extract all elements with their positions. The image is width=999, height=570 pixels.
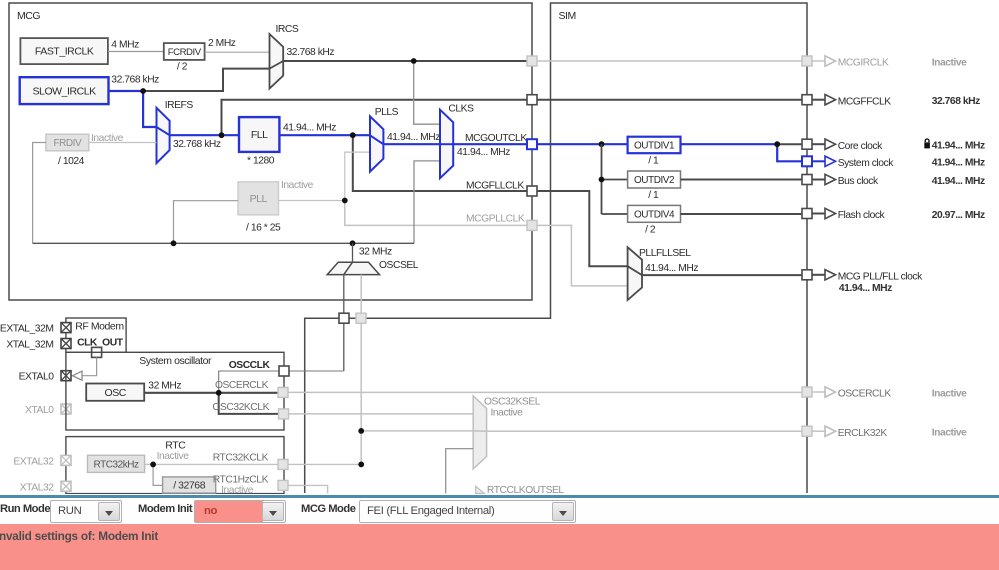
connector MCGPLLCLK at MCG border xyxy=(527,220,537,230)
connector MCGFFCLK at MCG border xyxy=(527,95,537,105)
junction rail to PLL xyxy=(171,240,177,246)
svg-text:RTC32KCLK: RTC32KCLK xyxy=(213,453,269,464)
label MCG Mode xyxy=(301,503,355,515)
wire CLK_OUT to EXTAL0 xyxy=(82,357,97,375)
svg-text:/ 2: / 2 xyxy=(645,224,656,235)
wire OSCERCLK to SIM border (inactive) xyxy=(288,391,802,393)
divider OUTDIV1 (blue) xyxy=(628,137,681,154)
dropdown Modem Init = no (invalid, red) xyxy=(194,500,286,523)
svg-text:OSC32KCLK: OSC32KCLK xyxy=(212,402,269,413)
wire OSCSEL input 2 from RTC 32k xyxy=(360,275,362,465)
svg-text:Inactive: Inactive xyxy=(932,57,967,68)
connector CLK_OUT xyxy=(92,347,102,357)
mux CLKS (blue, active) xyxy=(440,110,453,179)
mux PLLS (blue, active) xyxy=(370,116,383,171)
svg-text:/ 16 * 25: / 16 * 25 xyxy=(246,223,281,234)
mux IREFS (blue, active) xyxy=(157,108,170,163)
wire PLL output (inactive) xyxy=(279,200,345,202)
mux RTCCLKOUTSEL (clipped) xyxy=(476,486,485,493)
block SLOW_IRCLK xyxy=(20,77,109,104)
svg-text:OSCCLK: OSCCLK xyxy=(229,360,271,371)
mux IRCS xyxy=(270,34,284,89)
svg-text:FRDIV: FRDIV xyxy=(53,138,82,149)
junction IRCS rail xyxy=(411,58,417,64)
wire PLLS output to CLKS (blue) xyxy=(383,143,440,145)
wire MCGOUTCLK inside SIM (blue) xyxy=(537,143,628,145)
svg-text:Inactive: Inactive xyxy=(491,408,524,419)
svg-text:SIM: SIM xyxy=(559,10,576,22)
wire branch to MCGFFCLK xyxy=(222,100,528,136)
mux PLLFLLSEL xyxy=(628,247,642,300)
block FLL (blue, active) xyxy=(239,117,279,152)
junction PLL output xyxy=(342,198,348,204)
wire OSCSEL input 1 from OSCCLK xyxy=(343,275,345,371)
svg-text:OSC: OSC xyxy=(104,387,126,399)
svg-text:20.97... MHz: 20.97... MHz xyxy=(932,210,985,221)
connector MCGFLLCLK at MCG border xyxy=(527,186,537,196)
svg-text:ERCLK32K: ERCLK32K xyxy=(838,428,888,439)
pin XTAL_32M xyxy=(61,339,71,349)
crossing square OSCSEL input2 on boundary xyxy=(356,313,366,323)
wire OSC output xyxy=(144,392,278,394)
wire FAST_IRCLK to FCRDIV xyxy=(108,51,164,53)
wire RTC32kHz output xyxy=(145,463,278,465)
MCG module box xyxy=(9,3,532,300)
wire OSC32KCLK to OSC32KSEL (inactive) xyxy=(289,413,474,415)
wire down to OUTDIV2 and OUTDIV4 xyxy=(601,144,603,214)
output OSCERCLK: connector, arrow, labels xyxy=(802,387,967,400)
RTC box xyxy=(66,437,284,494)
label Run Mode xyxy=(0,503,50,515)
svg-text:OSCSEL: OSCSEL xyxy=(379,260,419,271)
svg-text:41.94... MHz: 41.94... MHz xyxy=(283,122,336,133)
svg-text:41.94... MHz: 41.94... MHz xyxy=(932,158,985,169)
svg-text:IREFS: IREFS xyxy=(165,100,194,111)
wire MCGFLLCLK inside SIM to PLLFLLSEL xyxy=(537,191,628,266)
System oscillator box xyxy=(66,352,284,430)
toolbar xyxy=(0,498,999,524)
svg-text:2 MHz: 2 MHz xyxy=(208,38,236,49)
wire PLL output up to PLLS input 2 xyxy=(345,152,370,200)
junction RTC32kHz output xyxy=(150,462,156,468)
wire OSC rail up to CLKS input 3 xyxy=(414,161,440,243)
svg-text:OSCERCLK: OSCERCLK xyxy=(838,389,892,400)
connector MCGOUTCLK at MCG border (blue) xyxy=(527,139,537,149)
block FAST_IRCLK xyxy=(20,38,108,64)
wire PLLFLLSEL output to border xyxy=(642,274,802,276)
mux OSCSEL xyxy=(327,262,379,274)
arrowhead into EXTAL0 xyxy=(73,371,83,380)
wire OUTDIV4 output to flash clock xyxy=(681,213,803,215)
toolbar separator line xyxy=(0,495,999,498)
svg-text:Bus clock: Bus clock xyxy=(838,176,879,187)
wire IRCS output rail to MCG border xyxy=(283,60,527,62)
svg-text:MCG: MCG xyxy=(17,10,40,22)
wire ERCLK32K output to SIM border xyxy=(487,430,802,432)
pin XTAL32 xyxy=(61,481,71,491)
pin EXTAL32 xyxy=(61,455,71,465)
svg-text:* 1280: * 1280 xyxy=(247,155,275,166)
svg-text:XTAL32: XTAL32 xyxy=(20,483,54,494)
svg-text:MCGFLLCLK: MCGFLLCLK xyxy=(466,181,524,192)
svg-text:EXTAL32: EXTAL32 xyxy=(13,457,54,468)
divider OUTDIV4 xyxy=(628,205,681,222)
wire OSC32KSEL input 3 from below xyxy=(446,449,474,494)
svg-text:EXTAL0: EXTAL0 xyxy=(19,371,55,382)
svg-text:32.768 kHz: 32.768 kHz xyxy=(111,75,159,86)
svg-text:RTCCLKOUTSEL: RTCCLKOUTSEL xyxy=(487,485,565,494)
wire OSCSEL output up to rail xyxy=(352,243,354,262)
svg-text:41.94... MHz: 41.94... MHz xyxy=(932,141,985,152)
junction rail to OSCSEL xyxy=(350,240,356,246)
svg-text:41.94... MHz: 41.94... MHz xyxy=(457,147,510,158)
svg-text:MCGIRCLK: MCGIRCLK xyxy=(838,58,889,69)
pin XTAL0 xyxy=(61,404,71,414)
connector RTC1HzCLK xyxy=(278,480,288,490)
dropdown MCG Mode = FEI xyxy=(359,500,576,523)
output Bus clock: connector, arrow, labels xyxy=(802,174,985,187)
RF Modem box xyxy=(66,318,126,352)
svg-text:/ 2: / 2 xyxy=(177,62,188,73)
output System clock: connector, arrow, labels xyxy=(802,156,985,169)
svg-text:32 MHz: 32 MHz xyxy=(359,246,392,257)
wire FCRDIV to IRCS mux xyxy=(205,51,270,53)
svg-text:Inactive: Inactive xyxy=(281,180,314,191)
output MCG PLL/FLL clock: connector, arrow, labels xyxy=(802,270,923,283)
svg-text:MCGOUTCLK: MCGOUTCLK xyxy=(465,133,527,144)
svg-text:32.768 kHz: 32.768 kHz xyxy=(287,47,335,58)
wire branch FLL output to MCGFLLCLK xyxy=(353,135,527,191)
svg-text:PLLS: PLLS xyxy=(375,107,399,118)
svg-text:41.94... MHz: 41.94... MHz xyxy=(932,176,985,187)
svg-text:OSCERCLK: OSCERCLK xyxy=(215,380,269,391)
svg-text:Inactive: Inactive xyxy=(932,428,967,439)
svg-text:41.94... MHz: 41.94... MHz xyxy=(387,132,440,143)
svg-text:RTC: RTC xyxy=(165,440,186,452)
junction OSC output xyxy=(216,390,222,396)
wire OSC branch down to OSC32KCLK xyxy=(219,393,279,414)
svg-text:32.768 kHz: 32.768 kHz xyxy=(173,139,221,150)
wire IREFS output to FLL (blue) xyxy=(170,134,239,136)
svg-text:Inactive: Inactive xyxy=(221,485,254,494)
junction OUTDIV feed xyxy=(599,141,605,147)
svg-text:/ 1: / 1 xyxy=(648,190,659,201)
wire MCGOUTCLK (blue) to SIM xyxy=(453,143,527,145)
wire FRDIV input from 32MHz rail xyxy=(33,143,46,244)
svg-text:32 MHz: 32 MHz xyxy=(148,381,181,392)
mux OSC32KSEL (inactive) xyxy=(473,396,486,469)
wire FLL output to PLLS (blue) xyxy=(279,134,370,136)
divider / 32768 xyxy=(163,477,216,493)
svg-text:System clock: System clock xyxy=(838,158,895,169)
pin EXTAL_32M xyxy=(61,323,71,333)
error banner xyxy=(0,524,999,570)
junction OUTDIV2 feed xyxy=(599,177,605,183)
output Flash clock: connector, arrow, labels xyxy=(802,208,985,221)
svg-text:RF Modem: RF Modem xyxy=(75,320,124,332)
svg-text:OUTDIV4: OUTDIV4 xyxy=(634,209,675,220)
wire OUTDIV2 output to bus clock xyxy=(681,179,803,181)
wire slow clock down to IREFS mux (blue) xyxy=(143,91,156,127)
wire SLOW_IRCLK output (blue) xyxy=(109,90,144,92)
junction slow clock xyxy=(140,88,146,94)
svg-text:EXTAL_32M: EXTAL_32M xyxy=(0,323,54,334)
wire PLL input from 32MHz rail xyxy=(174,201,239,244)
output Core clock: connector, arrow, labels xyxy=(802,139,985,152)
connector RTC32KCLK xyxy=(278,459,288,469)
output MCGIRCLK: connector, arrow, labels xyxy=(802,56,967,69)
svg-text:FLL: FLL xyxy=(251,129,268,141)
wire MCGIRCLK inside SIM (inactive) xyxy=(537,60,802,62)
connector OSCCLK on box border xyxy=(279,366,289,376)
block OSC xyxy=(86,384,144,401)
svg-text:41.94... MHz: 41.94... MHz xyxy=(645,263,698,274)
wire slow clock to IRCS mux input 2 xyxy=(143,69,269,91)
svg-text:RTC1HzCLK: RTC1HzCLK xyxy=(213,474,269,485)
block RTC32kHz (inactive) xyxy=(88,455,145,472)
svg-text:SLOW_IRCLK: SLOW_IRCLK xyxy=(33,85,97,97)
wire PLL output down to MCGPLLCLK xyxy=(345,201,527,226)
pin EXTAL0 xyxy=(61,371,71,381)
wire core clock to border xyxy=(777,143,802,145)
svg-text:41.94... MHz: 41.94... MHz xyxy=(839,283,892,294)
svg-text:Inactive: Inactive xyxy=(932,388,967,399)
svg-text:Core clock: Core clock xyxy=(838,141,883,152)
wire branch down to divider 32768 xyxy=(153,464,163,485)
svg-text:CLKS: CLKS xyxy=(448,104,474,115)
wire OUTDIV1 output (blue) xyxy=(681,143,778,145)
wire MCGFFCLK inside SIM xyxy=(537,99,802,101)
output MCGFFCLK: connector, arrow, labels xyxy=(802,95,980,108)
svg-text:OUTDIV1: OUTDIV1 xyxy=(634,141,675,152)
wire OSC branch up to OSCCLK xyxy=(219,371,344,393)
svg-text:XTAL_32M: XTAL_32M xyxy=(6,339,53,350)
svg-text:32.768 kHz: 32.768 kHz xyxy=(932,96,980,107)
connector MCGIRCLK at MCG border xyxy=(527,56,537,66)
wire system clock (blue) xyxy=(777,144,802,161)
divider FRDIV (inactive) xyxy=(46,134,89,151)
svg-text:Inactive: Inactive xyxy=(157,451,190,462)
svg-text:RTC32kHz: RTC32kHz xyxy=(93,459,139,470)
divider OUTDIV2 xyxy=(628,171,681,188)
svg-text:IRCS: IRCS xyxy=(276,24,299,35)
crossing square OSCSEL input1 on boundary xyxy=(339,313,349,323)
wire MCGPLLCLK inside SIM to PLLFLLSEL (inactive) xyxy=(537,225,628,286)
junction FLL input xyxy=(219,132,225,138)
wire RTC32KCLK to OSCSEL riser xyxy=(288,463,361,465)
svg-text:MCGPLLCLK: MCGPLLCLK xyxy=(466,214,525,225)
32 MHz rail across MCG bottom xyxy=(33,242,414,244)
svg-text:OSC32KSEL: OSC32KSEL xyxy=(484,397,541,408)
svg-text:XTAL0: XTAL0 xyxy=(25,405,54,416)
svg-text:MCGFFCLK: MCGFFCLK xyxy=(838,96,892,107)
svg-text:PLL: PLL xyxy=(250,193,268,205)
wire IRCS branch down to CLKS input 1 xyxy=(414,61,440,124)
svg-text:OUTDIV2: OUTDIV2 xyxy=(634,175,675,186)
svg-text:FCRDIV: FCRDIV xyxy=(168,47,202,58)
divider FCRDIV xyxy=(164,43,205,60)
junction RTC32KCLK to riser xyxy=(358,462,364,468)
dropdown Run Mode = RUN xyxy=(50,500,122,523)
output ERCLK32K: connector, arrow, labels xyxy=(802,426,967,439)
svg-text:MCG PLL/FLL clock: MCG PLL/FLL clock xyxy=(838,271,923,282)
wire ERCLK32K branch from riser xyxy=(361,430,473,432)
svg-text:/ 1: / 1 xyxy=(648,155,659,166)
svg-text:PLLFLLSEL: PLLFLLSEL xyxy=(639,248,691,259)
svg-text:4 MHz: 4 MHz xyxy=(111,39,139,50)
svg-text:/ 1024: / 1024 xyxy=(58,156,85,167)
wire RTC1HzCLK output (inactive) xyxy=(288,485,328,493)
wire FRDIV output to IREFS input 2 xyxy=(89,142,157,144)
svg-text:FAST_IRCLK: FAST_IRCLK xyxy=(35,46,94,58)
svg-text:/ 32768: / 32768 xyxy=(173,480,205,492)
svg-text:Flash clock: Flash clock xyxy=(838,210,886,221)
junction OUTDIV1 output xyxy=(774,141,780,147)
connector OSC32KCLK xyxy=(279,409,289,419)
junction FLL output xyxy=(350,132,356,138)
block PLL (inactive) xyxy=(238,182,279,215)
svg-text:System oscillator: System oscillator xyxy=(139,355,212,367)
SIM module box xyxy=(305,3,807,493)
junction riser to OSC32KSEL xyxy=(358,428,364,434)
label Modem Init xyxy=(138,503,192,515)
connector OSCERCLK xyxy=(278,387,288,397)
